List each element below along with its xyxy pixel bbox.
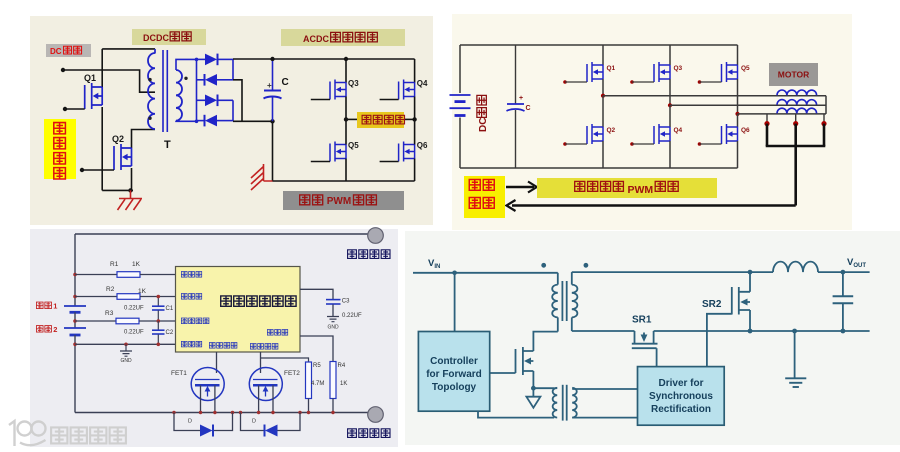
wire leg1 mid upper [602, 79, 604, 96]
label battery 1 [36, 302, 43, 308]
wire SR2 source [749, 310, 751, 331]
node battery midpoint [73, 319, 77, 323]
svg-text:+: + [267, 81, 272, 90]
wire leg3 bottom [737, 141, 739, 168]
node controller tap [452, 271, 457, 276]
wire bus drop to bridge bottom rail [272, 121, 274, 181]
node gate Q3 [630, 80, 634, 84]
wire Q6 source [414, 159, 416, 182]
wire SR2 gate [707, 314, 732, 367]
wire leg3 top [737, 45, 739, 65]
wire feedback crossbar [766, 145, 826, 148]
svg-text:Q2: Q2 [112, 134, 124, 144]
transformer T core [162, 50, 164, 132]
wire gate Q1 [65, 108, 85, 110]
terminal output positive [368, 228, 384, 244]
wire bottom bus [233, 120, 273, 122]
battery DC input [450, 94, 471, 96]
wire FET1 left leg [200, 385, 202, 412]
wire output top rail [572, 271, 750, 273]
wire feedback left drop [766, 124, 769, 146]
transformer T2 primary [553, 388, 558, 418]
watermark text [51, 427, 67, 443]
node gate Q6 [698, 142, 702, 146]
battery 2 [64, 327, 86, 329]
motor winding phase A [777, 90, 817, 95]
transistor SR2 [732, 287, 750, 315]
wire bridge bottom rail [273, 180, 415, 182]
wire leg1 top [602, 45, 604, 65]
transistor Q3 [330, 80, 346, 100]
svg-text:MOTOR: MOTOR [778, 70, 809, 80]
node phase 1 [601, 94, 605, 98]
diode D4 rectifier [204, 115, 206, 127]
capacitor C1 [157, 297, 159, 306]
svg-text:R4: R4 [338, 363, 346, 369]
wire motor tap 1 [766, 114, 768, 124]
svg-text:T: T [164, 139, 171, 151]
transistor Q3 [654, 62, 670, 82]
capacitor C2 [157, 321, 159, 330]
svg-text:SR1: SR1 [632, 315, 652, 326]
label box control center [464, 176, 505, 218]
wire secondary top to rectifier [176, 59, 197, 70]
transformer T primary winding [154, 49, 156, 54]
polarity dot primary lower [148, 117, 151, 120]
wire motor tap 2 [795, 114, 797, 124]
capacitor output [842, 272, 844, 296]
wire phase C to motor [738, 113, 827, 115]
node push-pull ground junction [128, 188, 132, 192]
ground push-pull (red chassis) [118, 190, 143, 210]
transistor Q6 [399, 142, 415, 162]
wire Q1 source to bottom rail [101, 107, 103, 190]
wire SR2 drain [749, 272, 751, 292]
wire gate Q4 [380, 99, 399, 101]
wire gate Q5 [311, 161, 330, 163]
svg-text:0.22UF: 0.22UF [124, 306, 144, 312]
node bus cap top [270, 57, 274, 61]
wire gate FET2 from charge-protect pin [260, 352, 262, 373]
node bridge top Q3 [344, 57, 348, 61]
wire leg2 mid lower [669, 105, 671, 127]
wire DC bus bottom rail (inverter) [459, 45, 461, 93]
wire feedback right drop [823, 124, 826, 146]
diode D3 rectifier [197, 99, 206, 101]
transistor Q5 [722, 62, 738, 82]
wire left rail upper [74, 234, 76, 306]
wire Q2 source to bottom rail [131, 168, 133, 190]
node row4 rail [73, 343, 77, 347]
svg-text:0.22UF: 0.22UF [342, 313, 362, 319]
node rail junction [271, 411, 274, 414]
pin label battery positive [181, 294, 187, 300]
svg-text:1K: 1K [132, 261, 141, 268]
wire rectifier left bus [196, 59, 198, 121]
svg-text:Q4: Q4 [674, 127, 683, 134]
svg-text:Q6: Q6 [741, 127, 750, 134]
transformer T secondary winding [176, 70, 182, 121]
wire DC bus top rail [233, 58, 415, 60]
panel background top-right [452, 14, 852, 230]
node gate Q1 [563, 80, 567, 84]
wire controller tap drop [454, 273, 456, 332]
transistor Q4 [399, 80, 415, 100]
svg-text:Q3: Q3 [674, 65, 683, 72]
node gate Q2 [563, 142, 567, 146]
panel background top-left [30, 16, 433, 225]
pin label battery negative [181, 341, 187, 347]
wire output negative bottom rail [75, 412, 368, 414]
wire Q5 drain [345, 119, 347, 144]
label battery 2 [36, 326, 43, 332]
resistor R5 [306, 362, 312, 399]
label box DC input (DC shu-ru) [46, 44, 91, 57]
node input terminal 2 [63, 107, 67, 111]
ground inverter (red) [251, 164, 273, 190]
wire main switch source [532, 371, 534, 388]
wire C3 branch from board power-positive pin [300, 289, 333, 299]
panel background bottom-right [405, 231, 900, 445]
svg-text:+: + [519, 95, 523, 102]
wire bottom rail push-pull [102, 189, 133, 191]
node rail junction [213, 411, 216, 414]
wire secondary return rail [572, 330, 635, 332]
wire leg2 bottom [669, 141, 671, 168]
node rail junction [331, 411, 334, 414]
svg-text:SR2: SR2 [702, 299, 722, 310]
svg-text:for Forward: for Forward [426, 369, 482, 380]
wire gate Q4 [632, 143, 654, 145]
label box MOTOR [769, 63, 818, 86]
diode D bypass 2 [265, 425, 278, 437]
node phase 3 [735, 112, 739, 116]
node output cap bottom [841, 329, 846, 334]
svg-text:GND: GND [120, 358, 132, 364]
node GND stub row4 [124, 343, 128, 347]
node rail junction [199, 411, 202, 414]
ground GND under C3 [327, 317, 339, 322]
transformer T1 core [561, 281, 563, 321]
svg-text:R5: R5 [313, 363, 321, 369]
svg-text:ACDC: ACDC [303, 34, 329, 44]
diode D bypass 1 [200, 425, 213, 437]
wire gate Q1 [565, 81, 587, 83]
polarity dot T1 primary [541, 263, 546, 268]
svg-text:C: C [526, 105, 531, 112]
svg-text:C1: C1 [166, 306, 174, 312]
ground GND battery negative [120, 344, 132, 356]
wire T2 secondary bottom to driver [572, 417, 637, 419]
svg-text:DCDC: DCDC [143, 33, 169, 43]
transistor FET1 [191, 368, 224, 401]
label box full-bridge PWM control [283, 191, 404, 210]
svg-text:FET1: FET1 [171, 370, 187, 377]
wire controller bottom [478, 411, 554, 417]
wire battery negative to bottom rail [459, 118, 461, 169]
node row2 rail [73, 295, 77, 299]
wire top rail from Q1 drain to transformer primary [102, 48, 155, 50]
wire gate Q6 [380, 161, 399, 163]
wire phase B to motor [670, 104, 826, 106]
capacitor C bus (inverter) [515, 45, 517, 104]
node gate Q4 [630, 142, 634, 146]
wire Q6 drain [414, 119, 416, 144]
wire input rail [413, 272, 558, 274]
svg-text:D: D [188, 419, 192, 425]
ground switch (open triangle) [532, 388, 534, 397]
svg-text:Topology: Topology [432, 382, 477, 393]
svg-text:FET2: FET2 [284, 370, 300, 377]
wire secondary bottom to rectifier [176, 120, 197, 123]
capacitor C3 [326, 299, 341, 301]
label DC input vertical [477, 95, 489, 132]
wire Q5 source [345, 159, 347, 182]
label box AC output [357, 112, 404, 128]
wire Q3 source to midpoint [345, 97, 347, 120]
transistor Q6 [722, 124, 738, 144]
polarity dot primary upper [148, 78, 151, 81]
transistor main switch [516, 347, 534, 375]
node bridge midpoint right [412, 117, 416, 121]
svg-text:Q3: Q3 [348, 79, 359, 88]
node motor tap 1 [764, 121, 769, 126]
wire motor tap 3 [823, 114, 825, 124]
resistor R1 [117, 272, 140, 278]
wire rectifier to bottom bus [233, 80, 242, 122]
wire Q4 source to midpoint [414, 97, 416, 120]
resistor R2 [117, 294, 140, 300]
node rail junction [172, 411, 175, 414]
label protection board title [221, 296, 232, 306]
node row1 rail [73, 273, 77, 277]
transistor Q1 [587, 62, 603, 82]
transistor Q2 [114, 144, 132, 170]
motor winding phase C [777, 108, 817, 113]
pin label battery midpoint [181, 318, 187, 324]
wire bypass loop 1 [174, 413, 233, 431]
svg-text:GND: GND [327, 325, 339, 331]
svg-text:4.7M: 4.7M [311, 381, 324, 387]
transformer T2 secondary [572, 388, 577, 418]
wire T1 primary bottom to switch [533, 332, 557, 351]
node gate Q5 [698, 80, 702, 84]
wire T2 secondary top to driver [572, 388, 637, 390]
wire Q3 drain [345, 59, 347, 83]
terminal output negative [368, 407, 384, 423]
resistor R3 [116, 318, 139, 324]
svg-text:R3: R3 [105, 310, 114, 317]
wire right rail top [414, 59, 416, 83]
wire bypass loop 2 [241, 413, 301, 431]
box Controller for Forward Topology [418, 332, 489, 412]
wire row4 battery negative [75, 343, 176, 345]
pin label charge protect [250, 344, 256, 350]
node rail junction [231, 411, 234, 414]
svg-text:C3: C3 [342, 299, 350, 305]
wire input 1 to center tap [63, 70, 155, 92]
inductor output filter [773, 262, 818, 273]
polarity dot secondary [184, 77, 187, 80]
node motor tap 3 [821, 121, 826, 126]
motor winding phase B [777, 100, 817, 105]
svg-text:D: D [252, 419, 256, 425]
diode D1 rectifier [197, 58, 206, 60]
label box DCDC boost [132, 29, 206, 45]
wire rectifier right bus upper [232, 59, 234, 79]
label output positive [348, 250, 357, 259]
node rail junction [239, 411, 242, 414]
wire gate Q5 [700, 81, 722, 83]
label box ACDC full-bridge inverter [281, 29, 405, 46]
svg-text:PWM: PWM [327, 196, 351, 207]
label box push-pull control [44, 119, 76, 179]
wire inductor to VOUT [818, 271, 870, 273]
arrowhead into PWM box [528, 182, 537, 193]
wire FET2 right leg [272, 385, 274, 412]
wire leg1 mid lower [602, 96, 604, 127]
IC charge-discharge protection board [176, 267, 301, 353]
wire row2 left [75, 296, 117, 298]
svg-text:Q4: Q4 [417, 79, 428, 88]
transistor Q4 [654, 124, 670, 144]
wire gate Q2 [565, 143, 587, 145]
pin label power positive [181, 272, 187, 278]
svg-text:DC: DC [478, 118, 489, 132]
wire bottom rail [460, 167, 738, 169]
svg-text:Q5: Q5 [348, 141, 359, 150]
wire leg2 mid upper [669, 79, 671, 105]
transformer T2 core [562, 385, 564, 421]
node SR2 drain tap [748, 270, 753, 275]
node input terminal 1 [61, 68, 65, 72]
wire row2 right [140, 296, 176, 298]
svg-text:Rectification: Rectification [651, 404, 711, 415]
wire feedback center drop [794, 124, 797, 206]
svg-text:DC: DC [50, 47, 62, 56]
wire charge-protect branch to R5 [261, 358, 309, 362]
svg-text:Driver for: Driver for [658, 378, 703, 389]
box Driver for Synchronous Rectification [638, 367, 725, 426]
node bridge midpoint left [344, 117, 348, 121]
transistor Q1 [85, 83, 103, 109]
wire gate Q3 [311, 99, 330, 101]
node motor tap 2 [793, 121, 798, 126]
svg-text:2: 2 [53, 325, 57, 334]
svg-text:Q1: Q1 [607, 65, 616, 72]
wire leg3 mid lower [737, 114, 739, 127]
wire FET2 left leg [258, 385, 260, 412]
panel background bottom-left [30, 229, 398, 447]
svg-text:Controller: Controller [430, 356, 478, 367]
svg-text:Synchronous: Synchronous [649, 391, 713, 402]
wire row3 left [75, 320, 116, 322]
wire switch source to T2 [533, 387, 554, 389]
svg-text:1K: 1K [138, 288, 147, 295]
wire gate FET1 from discharge-protect pin [216, 352, 218, 373]
ground output (bars) [794, 331, 796, 378]
wire leg3 mid upper [737, 79, 739, 114]
svg-text:1K: 1K [340, 381, 347, 387]
wire leg2 top [669, 45, 671, 65]
node SR2 source junction [748, 329, 753, 334]
wire between batteries [74, 312, 76, 327]
polarity dot T1 secondary [584, 263, 589, 268]
wire output positive top rail [75, 233, 369, 235]
transistor SR1 [632, 331, 658, 348]
wire Q1 drain [101, 49, 103, 87]
svg-text:C2: C2 [166, 330, 174, 336]
wire left rail lower [74, 335, 76, 413]
svg-text:Q5: Q5 [741, 65, 750, 72]
wire AC output left stub [346, 118, 357, 120]
diode D2 rectifier [204, 74, 206, 86]
wire control center to PWM box [506, 186, 534, 189]
transistor FET2 [249, 368, 282, 401]
node switch source junction [531, 386, 536, 391]
wire phase A to motor [603, 95, 826, 97]
svg-text:0.22UF: 0.22UF [124, 330, 144, 336]
wire gate Q6 [700, 143, 722, 145]
svg-text:Q1: Q1 [84, 73, 96, 83]
wire SR1 gate [656, 348, 658, 366]
wire row1 right [140, 274, 176, 276]
wire motor right connector [825, 96, 827, 114]
transistor Q2 [587, 124, 603, 144]
wire rectifier right bus lower [232, 100, 234, 121]
node output cap top [841, 270, 846, 275]
wire DC bus top rail (inverter) [460, 44, 738, 46]
wire gate Q3 [632, 81, 654, 83]
svg-text:R1: R1 [110, 261, 119, 268]
wire main switch gate from controller [490, 372, 516, 374]
wire gate Q2 [82, 169, 114, 171]
svg-text:1: 1 [53, 302, 57, 311]
label output negative [348, 429, 357, 438]
node rail junction [257, 411, 260, 414]
svg-text:Q2: Q2 [607, 127, 616, 134]
node phase 2 [668, 103, 672, 107]
transistor Q5 [330, 142, 346, 162]
node rail junction [298, 411, 301, 414]
wire row3 right [139, 320, 176, 322]
wire to inductor [750, 271, 773, 273]
wire transformer bottom to Q2 drain [132, 130, 156, 149]
pin label discharge protect [209, 343, 215, 349]
wire R5 to rail [308, 399, 310, 413]
label box three-phase full-bridge PWM control [537, 178, 717, 198]
wire R4 to rail [332, 399, 334, 413]
svg-text:Q6: Q6 [417, 141, 428, 150]
svg-text:PWM: PWM [628, 184, 654, 196]
node input terminal 3 [80, 168, 84, 172]
wire leg1 bottom [602, 141, 604, 168]
wire feedback return [512, 204, 796, 207]
svg-text:R2: R2 [106, 286, 115, 293]
pin label power negative [267, 330, 273, 336]
resistor R4 [330, 362, 336, 399]
arrowhead feedback into control center [507, 200, 516, 211]
watermark logo [9, 421, 46, 446]
wire AC output right stub [404, 118, 415, 120]
battery 1 [64, 305, 86, 307]
wire row1 left [75, 274, 117, 276]
node bus cap bottom [270, 119, 274, 123]
node rail junction [307, 411, 310, 414]
node ground tap [792, 329, 797, 334]
wire FET1 right leg [214, 385, 216, 412]
capacitor C bus [272, 61, 274, 90]
